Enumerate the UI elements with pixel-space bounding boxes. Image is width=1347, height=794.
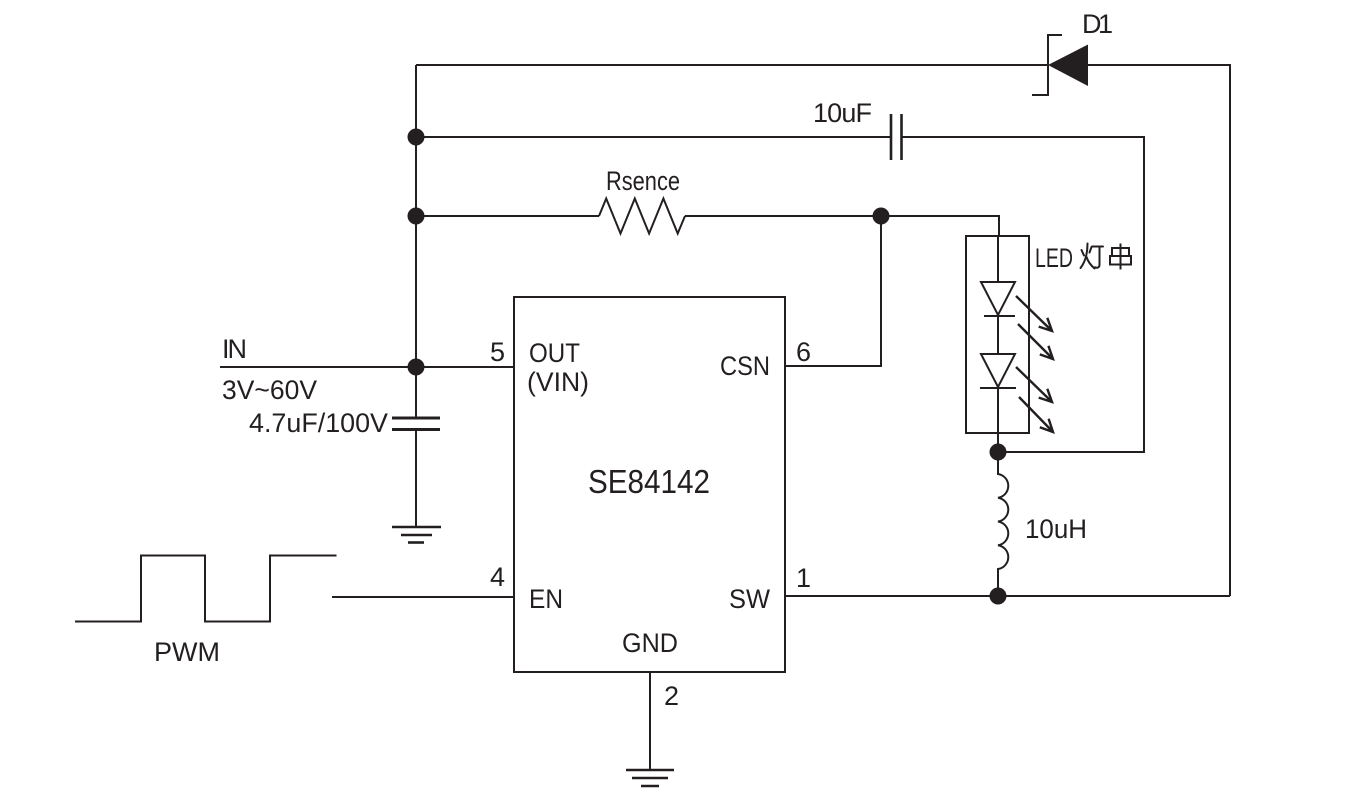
svg-text:5: 5 — [490, 337, 505, 367]
svg-text:4.7uF/100V: 4.7uF/100V — [249, 408, 388, 438]
LED string box outline — [966, 236, 1029, 433]
label LED string chinese char chuan (string) — [1110, 244, 1131, 270]
wire SW pin 1 to right rail — [785, 595, 1230, 597]
resistor Rsence zigzag — [599, 199, 685, 234]
wire GND pin 2 down — [649, 672, 651, 770]
wire Rsence net right segment to LED string top — [685, 216, 999, 236]
wire left vertical rail x=416 from top corner down to IN junction — [415, 65, 417, 367]
wire IN input to pin 5 — [220, 366, 514, 368]
svg-text:2: 2 — [664, 681, 679, 711]
svg-text:(VIN): (VIN) — [527, 367, 589, 397]
svg-text:LED: LED — [1035, 243, 1073, 273]
junction node SW / inductor bottom — [990, 588, 1007, 605]
junction node at 10uF tap on left rail — [408, 129, 425, 146]
junction node CSN tap on Rsence net — [873, 208, 890, 225]
svg-text:6: 6 — [796, 337, 811, 367]
svg-text:10uF: 10uF — [813, 98, 872, 128]
svg-text:GND: GND — [622, 628, 678, 658]
svg-text:SW: SW — [729, 584, 770, 614]
wire Rsence net left segment — [416, 215, 599, 217]
junction node LED bottom / inductor top / 10uF return — [990, 444, 1007, 461]
svg-text:3V~60V: 3V~60V — [222, 375, 317, 405]
capacitor C1 4.7uF/100V plates — [392, 418, 440, 430]
svg-text:PWM: PWM — [154, 637, 220, 667]
svg-text:OUT: OUT — [529, 338, 580, 368]
wire 10uF net left segment — [416, 136, 891, 138]
LED light arrows from bottom LED — [1016, 367, 1053, 432]
ground symbol at IC GND pin 2 — [626, 770, 674, 786]
wire top net: VIN rail from left corner to diode cathode — [416, 64, 1048, 66]
wire from diode anode to top-right corner and down to SW net — [1088, 65, 1230, 596]
junction node IN / pin5 / input cap — [408, 359, 425, 376]
wire 10uF net right segment down to LED bottom node — [901, 137, 1144, 452]
wire input cap to ground — [415, 430, 417, 527]
svg-text:4: 4 — [490, 562, 505, 592]
wire CSN pin 6 to Rsence junction — [785, 216, 881, 366]
LED D2 (top LED of string) — [997, 236, 999, 282]
wire input cap branch down from IN junction — [415, 367, 417, 417]
wire EN input to pin 4 — [332, 596, 514, 598]
svg-text:1: 1 — [796, 563, 811, 593]
LED D3 (bottom LED of string) — [997, 316, 999, 354]
svg-text:10uH: 10uH — [1025, 514, 1087, 544]
LED light arrows from top LED — [1016, 296, 1053, 359]
ground symbol at input cap — [392, 527, 441, 543]
svg-text:Rsence: Rsence — [606, 166, 680, 196]
inductor L1 10uH coil — [998, 452, 1008, 596]
svg-text:D1: D1 — [1082, 9, 1113, 39]
svg-text:IN: IN — [222, 334, 247, 364]
diode D1 triangle (anode) — [1048, 45, 1088, 87]
label LED string chinese char deng (lamp) — [1081, 244, 1104, 269]
capacitor C2 10uF plates — [891, 114, 902, 160]
svg-text:EN: EN — [529, 584, 563, 614]
svg-text:SE84142: SE84142 — [588, 463, 710, 500]
PWM waveform trace — [75, 556, 337, 622]
op-amp: none; IC U1 SE84142 body — [514, 297, 785, 672]
svg-text:CSN: CSN — [720, 351, 770, 381]
diode D1 cathode bar with schottky hooks — [1032, 35, 1062, 95]
junction node at Rsence tap on left rail — [408, 208, 425, 225]
